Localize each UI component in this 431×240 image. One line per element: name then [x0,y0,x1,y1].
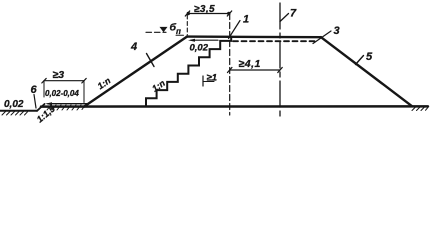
leader for 1 [229,21,241,39]
crest level mark triangle [160,27,168,32]
long dashed extension line [229,14,231,116]
downstream slope line (5) [321,37,412,106]
berm surface line with slope arrow [48,103,88,105]
ground line [41,105,428,108]
dimension >=3,5 end dots [187,12,190,15]
tick for 2 [280,14,289,22]
svg-text:0,02: 0,02 [190,43,209,54]
svg-text:п: п [176,27,181,36]
leader for 3 [313,31,331,44]
dimension >=3 line [44,80,84,82]
old crest dashed line [233,40,317,42]
dimension >=3 extension lines [43,81,45,97]
dimension >=1 tick [202,76,204,86]
lower-left ground line [0,110,37,112]
lower-left ground hatching [2,112,28,116]
dimension >=1 line [203,81,214,83]
svg-text:0,02-0,04: 0,02-0,04 [45,89,79,98]
crest level mark dashed line [146,31,166,33]
dam axis centerline [279,3,281,117]
svg-text:3: 3 [334,25,340,37]
dimension >=4,1 line [230,69,280,71]
svg-text:1: 1 [243,14,249,26]
svg-text:1:n: 1:n [150,78,167,94]
small slope 1:1,5 [37,104,45,111]
tick on downstream slope [356,56,364,65]
svg-text:≥3,5: ≥3,5 [194,4,215,15]
svg-text:5: 5 [366,51,373,63]
svg-text:≥4,1: ≥4,1 [239,58,261,70]
dimension >=4,1 end ticks [228,68,232,73]
svg-text:7: 7 [290,8,297,20]
svg-text:≥3: ≥3 [53,69,65,81]
downstream toe hatching [412,107,428,111]
tick on upstream slope [147,54,155,67]
benched old slope stairs [146,37,231,107]
dimension >=3 end ticks [42,78,46,83]
svg-text:0,02: 0,02 [4,99,24,110]
berm ground hatching [47,105,85,110]
crest line [187,35,321,38]
dimension >=3,5 left extension [186,15,188,35]
crest slope arrow 0,02 [191,39,218,41]
dimension >=3,5 end ticks [185,11,189,16]
leader for 6 [34,95,36,109]
svg-text:4: 4 [130,41,137,53]
upstream slope line (4) [84,37,187,107]
dimension >=3,5 line [188,13,230,15]
svg-text:≥1: ≥1 [207,73,218,84]
